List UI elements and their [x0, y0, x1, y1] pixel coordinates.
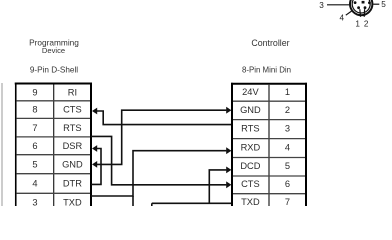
svg-text:9: 9 [32, 88, 37, 98]
arrowhead W5 into right RXD4 [226, 147, 231, 154]
svg-text:9-Pin D-Shell: 9-Pin D-Shell [30, 66, 78, 75]
svg-text:CTS: CTS [241, 179, 260, 189]
svg-text:TXD: TXD [241, 197, 260, 206]
right table right border [305, 83, 307, 206]
svg-text:RI: RI [68, 88, 77, 98]
svg-text:GND: GND [240, 105, 261, 115]
connector pin 3 dot [354, 1, 357, 4]
svg-text:Controller: Controller [251, 38, 289, 48]
svg-text:5: 5 [285, 161, 290, 171]
svg-text:6: 6 [32, 141, 37, 151]
connector pin 1 dot [357, 6, 360, 9]
svg-text:1: 1 [355, 20, 360, 29]
wire segment W6 drop off-page [151, 203, 153, 206]
wire W1 GND(5) to GND(2) [96, 110, 226, 164]
right table signal names [240, 87, 261, 207]
connector table P1 9-pin D-shell (left) [15, 83, 92, 207]
wire W3 DTR(4) to DSR(6) loopback [91, 149, 101, 185]
svg-text:8: 8 [32, 105, 37, 115]
connector pin 5 dot [368, 1, 371, 4]
wire segment W1 horizontal left at GND5 [96, 110, 226, 164]
svg-text:3: 3 [319, 1, 324, 10]
wire W2 RTS(3) to CTS(8) [96, 111, 231, 125]
wire segment W5 horizontal from TXD3 [91, 151, 226, 196]
svg-text:5: 5 [32, 159, 37, 169]
connector inner face circle [352, 0, 370, 13]
svg-text:GND: GND [62, 159, 83, 169]
svg-text:DSR: DSR [63, 141, 83, 151]
svg-text:7: 7 [32, 123, 37, 133]
wire segment W2 [96, 111, 231, 125]
connector table P2 8-pin mini-DIN (right) [231, 83, 307, 206]
right table column divider [268, 85, 270, 206]
connector key slot [362, 1, 365, 4]
arrowhead W6 into right DCD5 [226, 167, 231, 174]
left table top border [15, 83, 92, 85]
right table top border [231, 83, 307, 85]
arrowhead W1 into right GND2 [226, 107, 231, 114]
left table row dividers [17, 101, 90, 194]
connector pin 3 leader line [327, 4, 350, 6]
svg-text:5: 5 [381, 0, 386, 9]
svg-text:4: 4 [340, 14, 345, 23]
svg-text:3: 3 [285, 124, 290, 134]
wire segment W6 branch up to DCD5 [209, 170, 226, 203]
left table column divider [53, 85, 55, 207]
wire segment W3 [91, 149, 101, 185]
svg-text:7: 7 [285, 197, 290, 206]
connector pin 5 leader line [373, 3, 379, 5]
svg-text:1: 1 [285, 87, 290, 97]
connector pin 1 leader line [359, 9, 362, 17]
right table row dividers [233, 101, 305, 194]
left table pin numbers [32, 88, 37, 208]
svg-text:24V: 24V [242, 87, 259, 97]
arrowhead W4 into right CTS6 [226, 181, 231, 188]
arrowhead W3 into left DSR6 [92, 145, 97, 152]
connector pin 4 leader line [346, 11, 352, 16]
connector J1 8-pin mini-DIN face (cropped at top) [350, 0, 372, 15]
wire segment W5 stub continuing below [132, 196, 134, 206]
svg-text:2: 2 [285, 105, 290, 115]
wire W4 RTS(7) to CTS(6) [91, 136, 226, 184]
svg-text:RTS: RTS [241, 124, 259, 134]
svg-text:TXD: TXD [63, 197, 82, 206]
wire segment W6 horizontal at TXD7 [152, 202, 231, 204]
svg-text:DTR: DTR [63, 179, 82, 189]
svg-text:6: 6 [285, 179, 290, 189]
svg-text:4: 4 [32, 179, 37, 189]
wire W6 TXD(7) to DCD(5) and off-page RXD [152, 170, 231, 206]
wire segment W4 [91, 136, 226, 184]
arrowhead W1 into left GND5 [92, 161, 97, 168]
svg-text:CTS: CTS [63, 105, 82, 115]
connector outer shell circle [350, 0, 372, 15]
svg-text:2: 2 [364, 20, 369, 29]
right table left border [231, 83, 233, 206]
connector pin 2 dot [364, 6, 367, 9]
left table signal names [62, 88, 83, 208]
right table pin numbers [285, 87, 290, 207]
left table right border [90, 83, 92, 207]
connector pin 2 leader line [363, 9, 365, 17]
svg-text:DCD: DCD [240, 161, 260, 171]
svg-text:RXD: RXD [241, 142, 261, 152]
left table left border [15, 83, 17, 207]
svg-text:RTS: RTS [63, 123, 81, 133]
figure border (left edge, cropped) [1, 83, 3, 206]
svg-text:4: 4 [285, 142, 290, 152]
svg-text:3: 3 [32, 197, 37, 206]
wire W5 TXD(3) to RXD(4) [91, 151, 226, 206]
arrowhead W2 into left CTS8 [92, 108, 97, 115]
svg-text:Device: Device [42, 46, 65, 55]
svg-text:8-Pin Mini Din: 8-Pin Mini Din [242, 66, 291, 75]
